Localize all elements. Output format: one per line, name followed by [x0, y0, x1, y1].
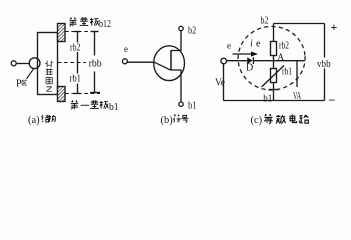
wire b1 lead (b)	[171, 70, 181, 102]
wire emitter to diode (c)	[227, 60, 248, 62]
svg-text:b12: b12	[99, 18, 111, 30]
svg-text:VA: VA	[293, 91, 301, 102]
wire emitter (b)	[127, 61, 154, 63]
svg-text:(a): (a)	[28, 115, 40, 126]
wire emitter lead (a)	[16, 63, 29, 65]
diode D cathode bar (c)	[252, 57, 254, 64]
dimension line rbb column	[94, 32, 96, 93]
dimension cap top rbb	[91, 31, 99, 33]
terminal b2 circle (b)	[179, 26, 183, 30]
svg-text:rb2: rb2	[279, 41, 289, 52]
svg-text:b1: b1	[109, 101, 119, 113]
svg-text:b2: b2	[188, 25, 196, 37]
dimension dashed line top (a)	[65, 31, 91, 33]
svg-text:+: +	[331, 20, 338, 34]
emitter terminal circle (c)	[221, 58, 227, 64]
svg-text:e: e	[227, 41, 231, 51]
svg-text:e: e	[124, 44, 128, 54]
label 第二基极b2 top (a): glyphs	[69, 17, 76, 26]
svg-text:P: P	[16, 79, 22, 90]
dashed ellipse transistor boundary (c)	[236, 24, 307, 91]
N-type silicon bar (a)	[38, 33, 58, 95]
dimension cap top rb2	[74, 31, 80, 33]
variable resistor arrow rb1 (c)	[262, 66, 285, 88]
svg-text:(b): (b)	[161, 115, 174, 126]
resistor rb2 box (c)	[271, 42, 277, 56]
svg-text:−: −	[329, 93, 336, 107]
svg-text:b2: b2	[261, 16, 269, 27]
caption (c) 等效电路	[264, 114, 273, 124]
dimension cap bottom rbb	[90, 92, 100, 94]
emitter diagonal inside symbol (b)	[154, 62, 171, 70]
dimension line rb2/rb1 column	[77, 32, 79, 94]
right rail vbb (c)	[324, 24, 326, 101]
caption (b) 符号	[173, 114, 180, 122]
svg-text:rb1: rb1	[282, 67, 292, 78]
base bar inside symbol (b)	[170, 50, 172, 71]
diode D triangle (c)	[247, 57, 252, 64]
dimension dashed line bottom (a)	[65, 93, 100, 95]
svg-text:rb1: rb1	[70, 73, 82, 85]
bottom wire (c)	[224, 100, 325, 102]
svg-text:rb2: rb2	[70, 42, 81, 54]
wire rb1 to b1 node (c)	[273, 83, 275, 101]
P-region junction circle (a)	[29, 58, 40, 69]
svg-text:vbb: vbb	[317, 59, 331, 70]
contact b2 hatched rect (a)	[58, 24, 66, 42]
emitter terminal circle (b)	[122, 59, 127, 64]
N-bar vertical text (a)	[45, 61, 53, 68]
wire rb2 to node A (c)	[273, 56, 275, 69]
dimension dashed line middle (a)	[58, 62, 87, 64]
wire b2 rail down to rb2 (c)	[273, 24, 275, 42]
emitter terminal circle (a)	[11, 61, 16, 66]
label 第一基极b1 bottom (a): glyphs	[71, 100, 78, 109]
svg-text:D: D	[246, 63, 253, 74]
svg-text:e: e	[256, 39, 261, 50]
svg-text:b1: b1	[188, 100, 197, 112]
dimension cap bottom rb1	[74, 93, 81, 95]
svg-text:i: i	[250, 39, 253, 50]
svg-text:A: A	[278, 52, 285, 62]
transistor symbol circle (b)	[154, 46, 185, 81]
svg-text:b1: b1	[263, 94, 272, 105]
voltage VA line (c)	[296, 61, 298, 87]
node b1 tick (c)	[269, 89, 280, 91]
wire diode to node A and beyond (c)	[253, 60, 305, 62]
svg-text:(c): (c)	[251, 115, 263, 126]
label 区 of P区 (a)	[22, 80, 27, 85]
current arrow ie (c)	[233, 53, 252, 55]
wire b2 top (c)	[274, 23, 325, 25]
contact b1 hatched rect (a)	[58, 87, 66, 102]
svg-text:rbb: rbb	[89, 58, 102, 70]
leader line P region label	[27, 69, 34, 79]
resistor rb1 box (c)	[271, 69, 277, 83]
terminal b1 circle (b)	[179, 102, 183, 106]
svg-text:Ve: Ve	[215, 77, 226, 88]
caption (a) 结构	[42, 115, 49, 122]
wire b2 lead (b)	[171, 31, 181, 51]
wire Ve down from e terminal (c)	[223, 64, 225, 101]
